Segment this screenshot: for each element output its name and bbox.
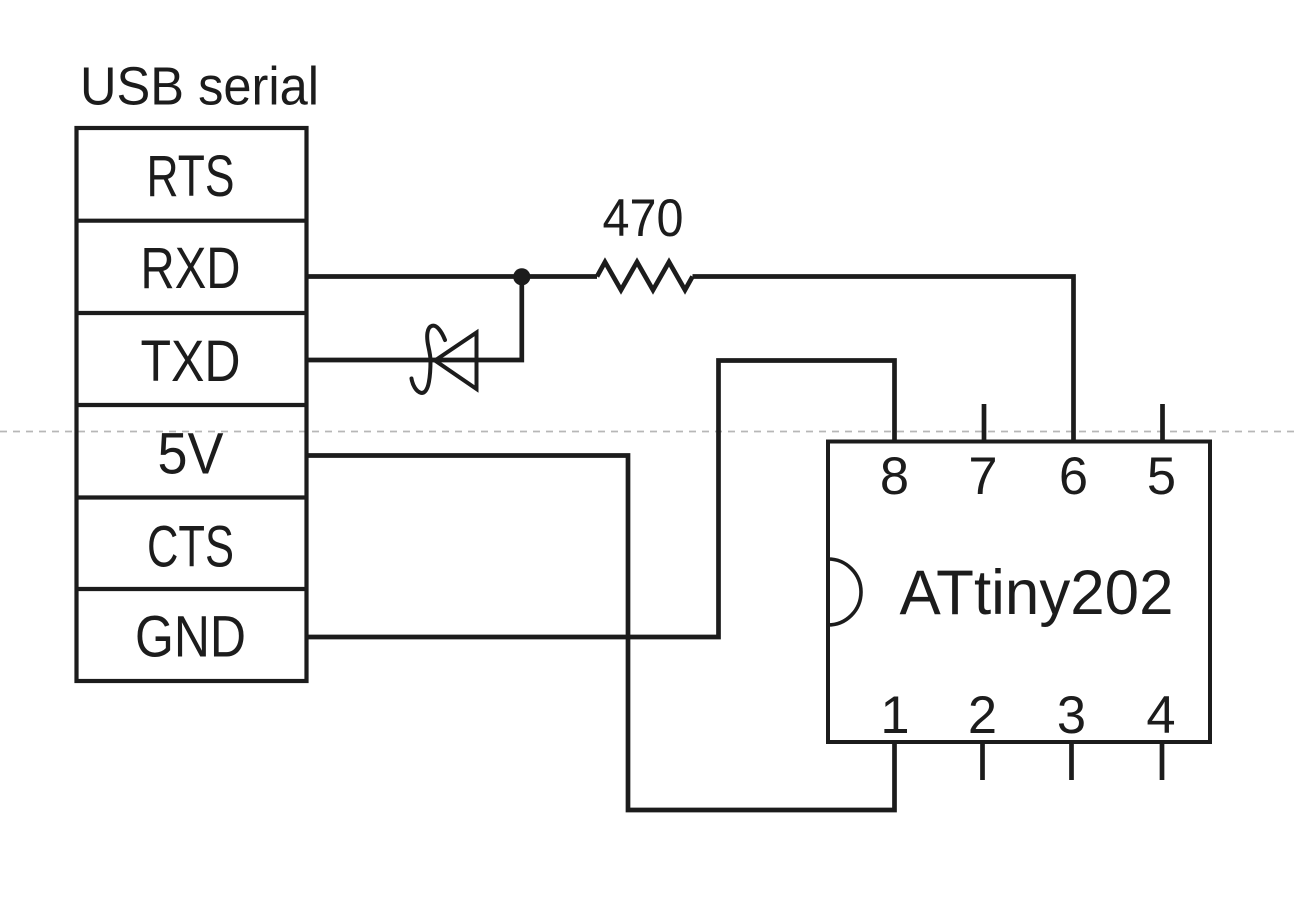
- wire RXD to junction: [307, 274, 598, 279]
- dashed separator line: [0, 431, 1300, 433]
- diode D1 Schottky cathode bar: [412, 326, 446, 393]
- svg-text:GND: GND: [135, 605, 246, 670]
- svg-text:2: 2: [968, 686, 997, 745]
- svg-text:8: 8: [880, 447, 909, 506]
- wire TXD: [307, 277, 522, 361]
- svg-text:ATtiny202: ATtiny202: [900, 558, 1174, 628]
- svg-text:RTS: RTS: [147, 144, 235, 209]
- pin stub 3: [1069, 742, 1074, 780]
- svg-text:7: 7: [968, 447, 997, 506]
- svg-text:1: 1: [880, 686, 909, 745]
- svg-text:RXD: RXD: [141, 236, 241, 301]
- svg-text:3: 3: [1057, 686, 1086, 745]
- svg-text:CTS: CTS: [147, 515, 234, 580]
- svg-text:5V: 5V: [158, 422, 224, 487]
- svg-text:USB serial: USB serial: [80, 57, 319, 117]
- IC U1 pin-1 notch: [828, 559, 861, 625]
- wire GND to IC pin 8: [307, 361, 895, 638]
- svg-text:TXD: TXD: [141, 329, 241, 394]
- diode D1 Schottky triangle: [435, 333, 477, 390]
- svg-text:6: 6: [1059, 447, 1088, 506]
- IC U1 body: [828, 442, 1210, 743]
- resistor R1 zigzag: [597, 262, 693, 290]
- wire resistor to IC pin 6: [693, 277, 1074, 442]
- junction node (RXD / diode / resistor): [513, 268, 530, 285]
- pin stub 2: [980, 742, 985, 780]
- pin stub 4: [1160, 742, 1165, 780]
- connector J1 body (USB serial header): [77, 128, 307, 681]
- pin stub 7: [982, 404, 987, 442]
- svg-text:4: 4: [1146, 686, 1175, 745]
- svg-text:470: 470: [603, 189, 684, 248]
- pin stub 5: [1160, 404, 1165, 442]
- svg-text:5: 5: [1147, 447, 1176, 506]
- wire 5V to IC pin 1: [307, 456, 895, 811]
